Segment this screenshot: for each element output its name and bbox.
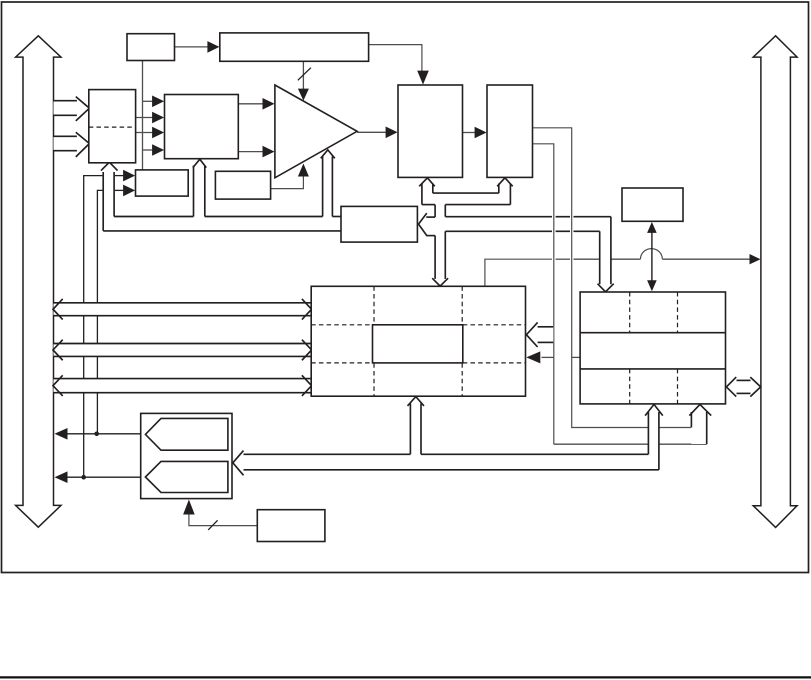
wire W2 branch to CPU-regs solid arrow <box>542 356 554 358</box>
wire W1 stub into memory block left edge <box>572 356 580 358</box>
block P1 (peripheral interface) <box>622 188 683 221</box>
mid block top bus arrow (barbed, down) <box>432 278 448 286</box>
MEM2 dashed column x=677.5 top <box>677 292 679 333</box>
result channel bottom edge <box>103 230 341 232</box>
arrowhead ALU to accumulator <box>386 127 398 139</box>
wire W2 shifter down to bottom run <box>533 144 554 444</box>
RAM bottom bus arrow 1 (barbed, up) <box>648 412 659 470</box>
bus arrow into register file at y=143.5 <box>54 136 77 150</box>
data bus double arrow at y=349.95 <box>54 344 312 357</box>
memory block top bus arrow (barbed, down) <box>600 231 611 286</box>
peripheral bidir arrow stem <box>651 231 653 283</box>
MEM2 dashed column x=629.7 top <box>629 292 631 333</box>
wire W1 shifter to right block / RAM arrows <box>533 128 648 428</box>
wire AR pentagon 1 to data bus <box>67 433 145 435</box>
arrowhead B1 input lower <box>123 185 135 197</box>
MEM1 inner core box <box>373 325 463 363</box>
wire stub into multiplier input 1 <box>143 100 158 102</box>
wire external-interface with hop (left leg) <box>485 259 552 286</box>
wire clock box to pentagon container <box>189 515 257 526</box>
MEM2 dashed column x=629.7 bottom <box>629 369 631 404</box>
junction connector band <box>433 193 499 205</box>
wire accumulator to shifter <box>463 132 479 134</box>
bus-width slash on clock wire <box>208 520 217 530</box>
result channel top edge seg3 <box>332 216 341 218</box>
wire T2 to accumulator (right then down) <box>369 45 422 72</box>
arrowhead into ALU top <box>298 89 309 101</box>
address pentagon 2 <box>145 461 228 492</box>
wire W2 bottom run to RAM arrow 2 <box>554 443 707 445</box>
program channel C to memory block <box>445 230 552 232</box>
block C1 (clock oscillator) <box>257 510 325 542</box>
register-file bottom bus arrow (barbed, up) <box>101 162 118 217</box>
address channel to pentagon container <box>244 454 649 470</box>
TREG right-edge bus arrow (barbed, left) <box>426 217 435 236</box>
mid block bottom bus arrow (barbed, up) <box>410 403 421 454</box>
arrowhead multiplier input 3 <box>152 127 164 139</box>
MEM1 dashed row 2 left <box>311 362 372 364</box>
wire B2 to ALU underside <box>271 173 304 189</box>
wire V1 arm into B1 upper input <box>115 175 128 177</box>
wire stub into multiplier input 4 <box>143 149 158 151</box>
block T2 (program controller) <box>220 33 369 61</box>
block B2 (aux regs) <box>215 171 270 199</box>
MEM1 dashed row 1 left <box>311 324 372 326</box>
arrowhead mult out B into ALU <box>263 146 275 158</box>
arrowhead clock wire into container <box>183 500 195 515</box>
wire multiplier out B to ALU <box>238 151 266 153</box>
wire reg-file to multiplier input 3 <box>136 132 157 134</box>
wire ALU apex to accumulator <box>357 131 389 133</box>
multiplier bottom bus arrow (barbed, up) <box>194 167 205 217</box>
arrowhead accumulator to shifter <box>475 127 487 139</box>
block T1 (instruction register) <box>127 34 175 61</box>
block R1 (register file, two banks) <box>89 90 136 163</box>
MEM1 dashed column 2 <box>461 286 463 396</box>
ALU triangle <box>275 85 357 178</box>
block M1 (multiplier) <box>165 95 239 159</box>
shifter bottom bus arrow (barbed, up) <box>499 183 511 205</box>
wire vertical V2 (x=97.4) pentagon1 net <box>97 190 102 433</box>
block TREG <box>341 206 417 242</box>
arrowhead B2 into ALU underside <box>298 164 309 177</box>
arrowhead pentagon2 wire into data bus <box>55 471 68 483</box>
wire AR pentagon 2 to data bus <box>67 476 145 478</box>
right external bus (vertical double arrow) <box>753 36 797 528</box>
arrowhead multiplier input 2 <box>152 112 164 124</box>
RAM bottom bus arrow 2 (barbed, up) <box>691 412 707 444</box>
block A1 (accumulator) <box>398 85 463 177</box>
bus arrow into register file at y=108.2 <box>54 101 77 116</box>
wire T1 to T2 <box>175 46 212 48</box>
accumulator bottom bus arrow (barbed, up) <box>422 183 433 205</box>
address pentagon 1 <box>145 418 228 450</box>
MEM1 dashed row 2 right <box>463 362 526 364</box>
wire external-interface to hop <box>574 258 641 260</box>
arrowhead pentagon1 wire into data bus <box>55 428 68 440</box>
register file bank divider (dashed) <box>89 126 136 128</box>
arrowhead W2 into mid block <box>526 351 540 363</box>
arrowhead multiplier input 1 <box>152 96 164 108</box>
wire V2 arm into B1 lower input <box>115 189 128 191</box>
arrowhead mult out A into ALU <box>263 98 275 110</box>
wire W1 continuation between RAM arrows <box>659 427 691 429</box>
arrowhead peripheral bidir up <box>647 222 657 233</box>
MEM2 row divider 1 <box>580 332 725 334</box>
arrowhead into accumulator top <box>417 71 429 85</box>
block B1 (status regs) <box>136 170 189 196</box>
left data bus (vertical double arrow) <box>16 36 61 527</box>
wire external-interface right leg <box>662 258 751 260</box>
junction dot V1-pentagon2 <box>81 475 86 480</box>
MEM1 dashed column 1 <box>373 286 375 396</box>
arrowhead hop wire into external bus <box>750 254 761 264</box>
block S1 (shifter) <box>487 85 533 177</box>
data bus double arrow at y=309.25 <box>54 303 312 316</box>
block MEM1 (central memory map) <box>311 286 525 396</box>
MEM1 dashed row 1 right <box>463 324 526 326</box>
wire T2 bottom to ALU top <box>302 61 304 93</box>
result channel top edge seg1 <box>114 216 193 218</box>
arrowhead multiplier input 4 <box>152 144 164 156</box>
arrowhead B1 input upper <box>123 170 135 182</box>
arrowhead peripheral bidir down <box>647 280 657 291</box>
pentagon container box <box>141 413 232 498</box>
program channel B to memory block <box>445 216 552 218</box>
wire reg-file to multiplier input 2 <box>136 117 157 119</box>
wire vertical V1 (x=83.7) pentagon2 net <box>84 176 103 478</box>
result channel top edge seg2 <box>205 216 323 218</box>
wire T1 bottom to B1 top (vertical feed x=142.5) <box>142 61 144 170</box>
mid block right-edge bus arrow (barbed, left) <box>538 327 554 343</box>
block MEM2 (program/data memory) <box>580 292 725 404</box>
data bus double arrow at y=385.65 <box>54 379 312 393</box>
MEM2 to external bus double arrow <box>736 380 751 393</box>
wire external-interface hop segment <box>556 258 570 260</box>
descender bus to mid block <box>435 205 445 280</box>
MEM2 row divider 2 <box>580 368 725 370</box>
MEM2 dashed column x=677.5 bottom <box>677 369 679 404</box>
junction dot V2-pentagon1 <box>94 432 99 437</box>
wire multiplier out A to ALU <box>238 103 266 105</box>
arrowhead T1 to T2 <box>207 41 219 53</box>
footer rule line <box>0 676 811 678</box>
ALU underside bus arrow (barbed, up) <box>323 157 333 217</box>
hop semicircle over bidir arrow <box>640 249 662 260</box>
bus-width slash on ALU top wire <box>298 68 311 81</box>
